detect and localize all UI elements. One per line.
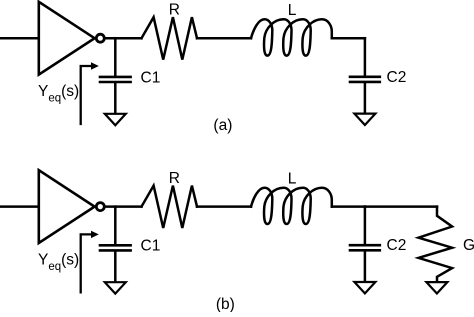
svg-text:C2: C2 [387, 237, 407, 254]
wire: input to inverter (b) [0, 205, 38, 208]
wire: L to C2 node (a) [332, 37, 365, 40]
capacitor C1 (a) [100, 77, 131, 82]
inverter output bubble (a) [96, 34, 104, 42]
arrow Yeq (b) [81, 231, 99, 293]
wire: node to C2 (a) [364, 38, 367, 75]
wire: R to L (b) [197, 205, 251, 208]
ground below C1 (a) [105, 114, 126, 125]
svg-text:G: G [463, 237, 474, 254]
capacitor C2 (a) [350, 77, 380, 82]
wire: node to C1 (b) [114, 207, 117, 244]
svg-text:C1: C1 [141, 69, 161, 86]
ground below C2 (a) [354, 114, 375, 125]
resistor R (b) [142, 186, 198, 228]
resistor R (a) [142, 17, 198, 59]
svg-text:R: R [169, 2, 180, 19]
inverter U2 (b) [39, 170, 95, 243]
inductor L (a) [251, 19, 332, 55]
wire: R to L (a) [197, 37, 251, 40]
wire: C2 node to resistor G (b) [365, 205, 437, 208]
inductor L (b) [251, 188, 332, 224]
svg-text:Yeq(s): Yeq(s) [38, 83, 79, 105]
wire: bubble to resistor R (a) [105, 37, 142, 40]
inverter U1 (a) [39, 2, 95, 75]
svg-text:C2: C2 [387, 69, 407, 86]
wire: L to C2 node (b) [332, 205, 365, 208]
svg-text:Yeq(s): Yeq(s) [38, 252, 79, 273]
capacitor C2 (b) [350, 245, 380, 250]
capacitor C1 (b) [100, 245, 131, 250]
wire: node to C2 (b) [364, 207, 367, 244]
ground below C1 (b) [105, 282, 126, 293]
svg-text:C1: C1 [141, 238, 161, 255]
svg-text:(a): (a) [213, 117, 232, 134]
resistor G (b) [419, 207, 453, 282]
wire: C1 to ground (a) [114, 83, 117, 113]
svg-text:R: R [169, 170, 180, 187]
wire: input to inverter (a) [0, 37, 38, 40]
svg-text:L: L [288, 2, 297, 19]
ground below C2 (b) [354, 282, 375, 293]
svg-text:L: L [288, 171, 297, 188]
ground below G (b) [426, 282, 447, 293]
wire: bubble to resistor R (b) [105, 205, 142, 208]
inverter output bubble (b) [96, 203, 104, 211]
wire: node to C1 (a) [114, 38, 117, 75]
arrow Yeq (a) [81, 62, 99, 124]
wire: C1 to ground (b) [114, 251, 117, 281]
wire: C2 to ground (a) [364, 83, 367, 113]
svg-text:(b): (b) [216, 296, 235, 312]
wire: C2 to ground (b) [364, 251, 367, 281]
